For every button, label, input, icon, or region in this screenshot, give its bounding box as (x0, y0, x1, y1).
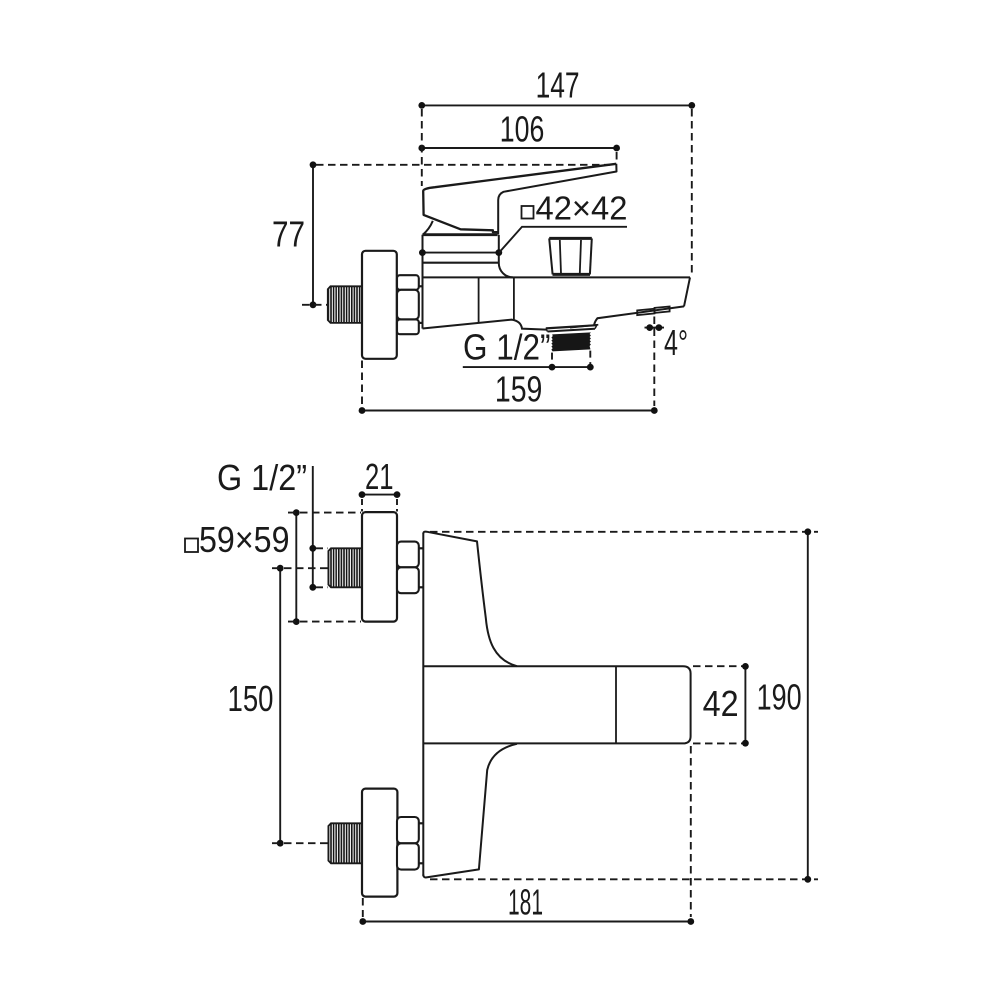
svg-text:59×59: 59×59 (199, 519, 290, 560)
wall flange (side view) (362, 251, 397, 359)
svg-text:106: 106 (500, 109, 545, 150)
lower wall flange (plan) (362, 789, 397, 897)
joint vertical A (478, 277, 480, 323)
svg-text:4°: 4° (664, 322, 688, 363)
body lower right curve + bottom edge (423, 744, 517, 878)
body top edge + upper right curve (423, 532, 517, 667)
svg-text:42: 42 (703, 683, 739, 724)
dim 42 (693, 666, 752, 743)
inlet pipe thread (side view) (328, 286, 362, 323)
union nut (side view) (397, 275, 419, 290)
spout (plan view) (423, 666, 690, 743)
svg-text:G 1/2”: G 1/2” (463, 327, 551, 368)
spout right edge (684, 277, 690, 306)
dim 42x42 square symbol (522, 206, 534, 219)
svg-text:181: 181 (508, 882, 543, 923)
dim 181 (363, 746, 691, 917)
extension dashed verticals top (422, 109, 692, 275)
upper inlet pipe (328, 548, 362, 587)
pipe stubs nut to body (419, 285, 423, 287)
spout underside left (423, 320, 547, 330)
diverter knob (549, 238, 592, 274)
svg-text:77: 77 (272, 214, 305, 255)
dim 106 line (422, 147, 617, 149)
dim 77 line (312, 165, 314, 305)
body (plan view) (423, 532, 517, 878)
dim 77 dashed extensions (302, 165, 610, 305)
dim 59 line (295, 513, 297, 622)
dim G1/2 top line (463, 366, 591, 368)
centerlines dashed (272, 568, 328, 843)
dim 147 line (422, 104, 692, 106)
spout joint line (615, 666, 617, 743)
svg-text:190: 190 (757, 677, 802, 718)
outlet flange under spout (546, 325, 597, 328)
body left edge (side view) (422, 235, 424, 329)
svg-text:42×42: 42×42 (536, 189, 628, 226)
dim 190 (430, 532, 818, 880)
upper union nut (397, 542, 419, 568)
upper wall flange (plan) (362, 512, 397, 622)
outlet thread (black) (551, 332, 591, 351)
svg-text:150: 150 (228, 678, 274, 719)
dim 42x42 leader + dots (422, 252, 498, 254)
dim G1/2 bottom leader (312, 466, 314, 587)
spout underside right (4 deg) (594, 306, 684, 324)
tab under spout end (637, 309, 654, 315)
svg-text:147: 147 (536, 64, 580, 105)
lower inlet pipe (328, 823, 362, 863)
dim 106 dots (418, 145, 425, 152)
cartridge collar (423, 235, 514, 278)
dim 77 dots (310, 161, 317, 168)
dim 147 dots (418, 102, 425, 109)
cartridge dome arc (423, 221, 433, 235)
svg-text:G 1/2”: G 1/2” (217, 457, 307, 498)
spout top line (422, 276, 690, 278)
lower union nut (397, 817, 419, 843)
body left edge (422, 533, 424, 876)
svg-text:159: 159 (495, 369, 543, 410)
dim 59x59 square symbol (185, 539, 198, 553)
lever handle (423, 164, 616, 235)
dim 4 deg (645, 327, 665, 329)
joint vertical B (513, 277, 515, 320)
svg-text:21: 21 (365, 456, 394, 497)
